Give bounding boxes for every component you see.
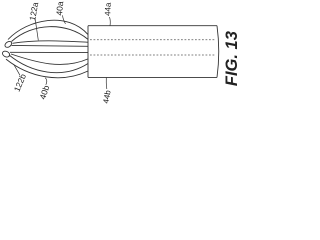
svg-text:40b: 40b: [37, 84, 51, 101]
svg-text:44b: 44b: [101, 89, 112, 104]
svg-text:40a: 40a: [54, 1, 65, 16]
svg-text:FIG. 13: FIG. 13: [223, 31, 240, 86]
svg-text:44a: 44a: [103, 2, 112, 16]
svg-text:122a: 122a: [27, 1, 40, 21]
svg-text:122b: 122b: [12, 72, 29, 93]
